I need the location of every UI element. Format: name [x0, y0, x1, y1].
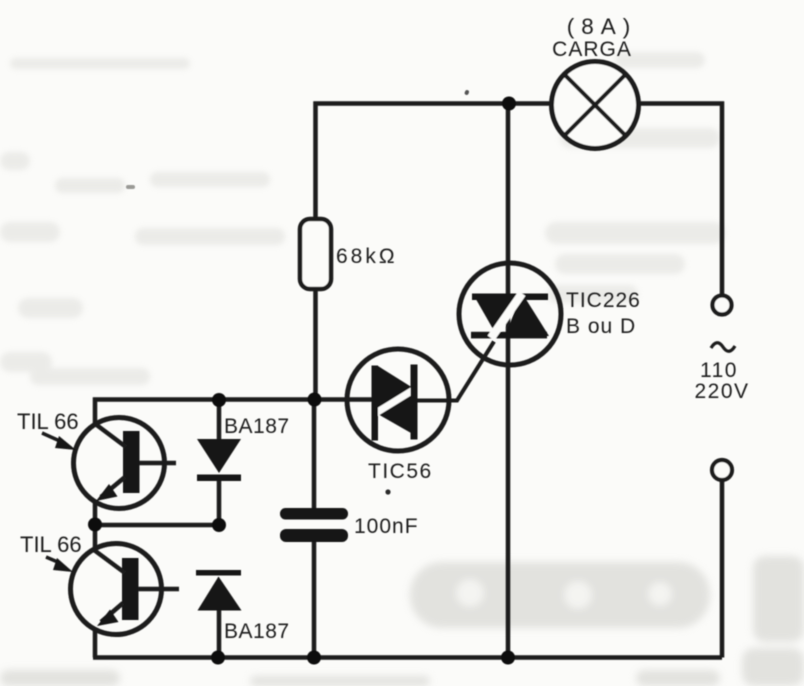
wire bottom rail	[93, 655, 722, 660]
wire top rail right of lamp	[639, 104, 722, 296]
AC tilde	[711, 343, 735, 352]
phototransistor Q2 TIL66	[71, 544, 180, 635]
svg-text:100nF: 100nF	[354, 515, 419, 538]
diac symbol triangles	[376, 366, 413, 433]
svg-text:TIL 66: TIL 66	[17, 409, 79, 434]
wire capacitor bottom	[312, 541, 317, 658]
wire diode1 branch	[217, 400, 222, 441]
triac symbol	[471, 293, 549, 338]
wire capacitor top	[312, 400, 317, 510]
speck below TIC56	[385, 489, 390, 494]
node Q1/Q2	[88, 518, 102, 532]
node cap bottom	[307, 651, 321, 665]
wire top rail left of lamp	[316, 104, 552, 220]
lamp CARGA	[552, 62, 639, 149]
diac TIC56 circle	[347, 349, 449, 451]
svg-text:B ou D: B ou D	[566, 315, 636, 338]
diode D1 BA187	[197, 439, 241, 481]
svg-text:TIL 66: TIL 66	[20, 532, 82, 557]
svg-text:(8A): (8A)	[567, 14, 638, 39]
arrow to Q2	[46, 557, 73, 572]
wire diode2 bottom	[217, 609, 222, 658]
svg-text:TIC56: TIC56	[368, 460, 433, 483]
node diodes mid	[212, 518, 226, 532]
resistor 68k body	[300, 219, 331, 289]
node diode2 bottom	[211, 651, 225, 665]
phototransistor Q1 TIL66	[74, 418, 177, 509]
node resistor/cap/diac	[308, 393, 322, 407]
wire mid junction link	[95, 523, 219, 528]
wire resistor bottom	[313, 289, 318, 400]
capacitor C1 plates	[280, 508, 348, 542]
ghost bleed-through marks	[0, 52, 725, 385]
node diode1 top	[212, 393, 226, 407]
wire diac gate to triac	[417, 342, 494, 401]
node triac bottom	[501, 651, 515, 665]
svg-text:BA187: BA187	[224, 415, 290, 438]
arrow to Q1	[42, 433, 76, 450]
wire triac vertical	[506, 104, 511, 658]
svg-text:BA187: BA187	[224, 620, 290, 643]
triac U1 circle	[459, 263, 561, 365]
wire middle rail	[95, 400, 372, 426]
triac white slash	[491, 294, 522, 339]
wire right terminal bottom	[720, 480, 725, 658]
diac white slash	[375, 390, 414, 414]
wire left transistor2 top	[93, 525, 98, 550]
wire left transistor2 bottom	[93, 628, 98, 658]
svg-text:110: 110	[700, 359, 738, 382]
diode D2 BA187	[196, 570, 242, 611]
terminal bottom	[712, 460, 732, 480]
speck near top rail	[464, 89, 469, 95]
svg-text:TIC226: TIC226	[566, 289, 641, 312]
wire left between transistors	[93, 500, 98, 525]
svg-text:220V: 220V	[694, 380, 749, 403]
svg-text:68kΩ: 68kΩ	[336, 245, 398, 268]
node top rail / triac	[502, 97, 516, 111]
terminal top	[713, 296, 732, 315]
wire diode1 to mid junction	[217, 480, 222, 525]
diac bars	[372, 365, 418, 441]
speck left margin	[126, 185, 135, 189]
svg-text:CARGA: CARGA	[552, 38, 632, 61]
